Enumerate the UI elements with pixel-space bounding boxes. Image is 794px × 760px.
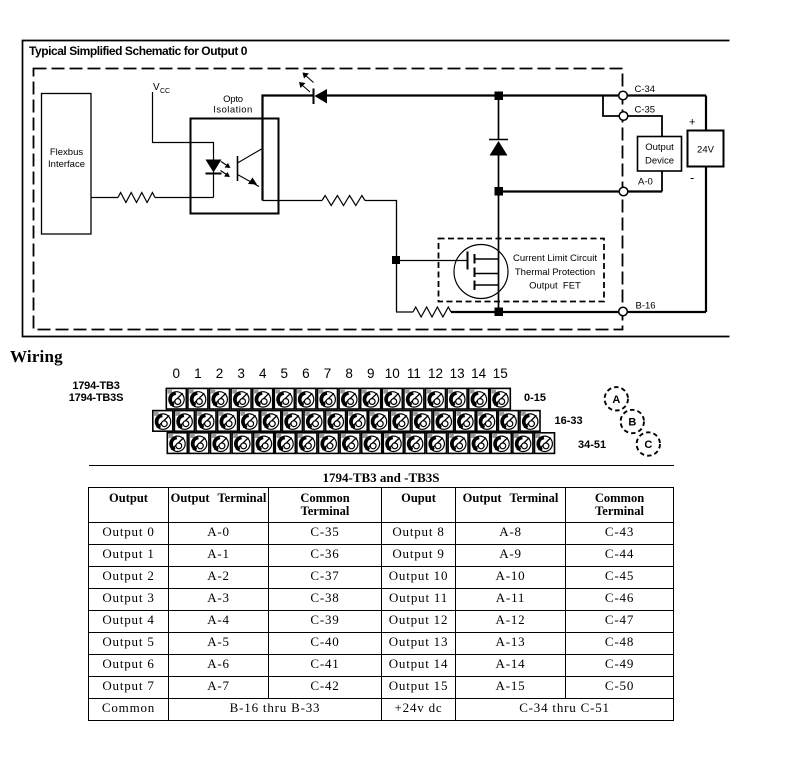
current limit dashed box xyxy=(439,239,605,302)
wire emitter to R2 xyxy=(263,200,323,202)
svg-text:11: 11 xyxy=(407,366,421,381)
wire C-34 to 24V supply xyxy=(705,96,707,131)
svg-text:24V: 24V xyxy=(697,145,715,156)
opto LED D1 xyxy=(206,160,222,174)
current limit labels xyxy=(513,253,597,292)
terminal C-35 xyxy=(619,112,628,121)
terminal C-34 xyxy=(619,91,628,100)
svg-text:6: 6 xyxy=(302,366,310,381)
wire top rail xyxy=(262,94,314,96)
svg-text:Flexbus: Flexbus xyxy=(50,147,84,158)
wire top rail to C-34 xyxy=(327,94,706,96)
svg-text:CC: CC xyxy=(160,88,170,95)
svg-text:7: 7 xyxy=(324,366,332,381)
opto isolation box U1 xyxy=(191,119,279,214)
svg-text:+: + xyxy=(689,117,695,129)
resistor R2 xyxy=(322,196,365,206)
svg-text:5: 5 xyxy=(281,366,289,381)
wiring table xyxy=(88,465,673,721)
dashed isolation boundary xyxy=(34,69,623,330)
svg-text:Device: Device xyxy=(645,156,674,167)
svg-text:10: 10 xyxy=(385,366,400,381)
svg-text:C-35: C-35 xyxy=(635,105,656,116)
keying circle A xyxy=(605,387,628,410)
1794-TB3 labels xyxy=(69,380,123,404)
svg-text:Current Limit Circuit: Current Limit Circuit xyxy=(513,253,597,264)
svg-text:1794-TB3: 1794-TB3 xyxy=(72,380,119,392)
wire gate xyxy=(396,260,467,262)
svg-text:C: C xyxy=(644,439,652,451)
svg-text:2: 2 xyxy=(216,366,224,381)
svg-text:C-34: C-34 xyxy=(635,84,656,95)
Flexbus Interface box xyxy=(42,94,92,235)
svg-text:Opto: Opto xyxy=(223,94,243,105)
svg-text:A-0: A-0 xyxy=(638,177,653,188)
wire LED cathode to R1 node xyxy=(213,172,215,198)
wire B-16 rail xyxy=(451,311,706,313)
opto light arrows xyxy=(221,162,231,178)
svg-text:B: B xyxy=(628,417,636,429)
svg-text:0: 0 xyxy=(173,366,181,381)
terminal A-0 xyxy=(619,187,628,196)
svg-text:1: 1 xyxy=(194,366,202,381)
svg-text:14: 14 xyxy=(471,366,487,381)
svg-text:Output: Output xyxy=(645,142,674,153)
svg-text:15: 15 xyxy=(493,366,508,381)
wire R2 to gate node xyxy=(365,201,397,313)
wire A-0 rail xyxy=(499,190,662,192)
Output Device box xyxy=(638,137,682,172)
terminal block row 16-33 xyxy=(153,411,540,432)
phototransistor Q1 xyxy=(238,149,262,187)
svg-text:1794-TB3S: 1794-TB3S xyxy=(69,392,123,404)
node top rail junction xyxy=(495,92,504,101)
svg-text:13: 13 xyxy=(450,366,465,381)
svg-text:12: 12 xyxy=(428,366,443,381)
output FET Q2 xyxy=(454,245,508,299)
wire C-35 jog xyxy=(603,96,662,137)
Vcc label xyxy=(153,82,170,95)
wire A-0 to Output Device xyxy=(661,171,663,192)
node source junction xyxy=(495,308,504,317)
node A-0 junction xyxy=(495,187,504,196)
wire FET drain-source rail xyxy=(498,192,500,313)
wire R1 to LED node xyxy=(155,197,214,199)
svg-text:9: 9 xyxy=(367,366,375,381)
keying circle B xyxy=(621,410,644,433)
keying circle C xyxy=(637,432,660,455)
svg-text:-: - xyxy=(690,170,694,185)
svg-text:3: 3 xyxy=(237,366,245,381)
terminal block row 0-15 xyxy=(166,388,510,409)
svg-text:0-15: 0-15 xyxy=(524,392,546,404)
opto isolation label xyxy=(213,94,252,116)
LED emission arrows xyxy=(299,73,314,93)
svg-text:Thermal Protection: Thermal Protection xyxy=(515,267,595,278)
schematic drawing xyxy=(0,0,794,470)
svg-text:V: V xyxy=(153,82,160,93)
svg-text:Interface: Interface xyxy=(48,159,85,170)
24V supply box xyxy=(688,131,724,167)
terminal B-16 xyxy=(619,307,628,316)
svg-text:8: 8 xyxy=(345,366,353,381)
resistor R1 xyxy=(118,193,155,203)
svg-text:B-16: B-16 xyxy=(636,301,656,312)
flyback diode D3 xyxy=(489,96,508,192)
indicator LED D2 xyxy=(314,89,328,105)
resistor R3 xyxy=(413,307,451,317)
terminal block row 34-51 xyxy=(167,433,554,454)
wire bottom to R3 xyxy=(396,311,413,313)
svg-text:A: A xyxy=(612,394,620,406)
svg-text:4: 4 xyxy=(259,366,267,381)
wire Flexbus to R1 xyxy=(92,197,119,199)
node gate junction xyxy=(392,256,400,264)
svg-text:Typical Simplified Schematic f: Typical Simplified Schematic for Output … xyxy=(29,44,248,58)
svg-text:Isolation: Isolation xyxy=(213,105,252,116)
outer schematic frame xyxy=(23,41,730,337)
terminal numbers 0-15 xyxy=(173,366,508,381)
svg-text:34-51: 34-51 xyxy=(578,439,606,451)
svg-text:Output FET: Output FET xyxy=(529,281,581,292)
Wiring heading xyxy=(10,347,63,367)
svg-text:16-33: 16-33 xyxy=(555,415,583,427)
wire 24V return xyxy=(705,167,707,313)
wire Vcc to opto LED anode xyxy=(153,92,214,160)
wire collector rail xyxy=(261,95,263,201)
